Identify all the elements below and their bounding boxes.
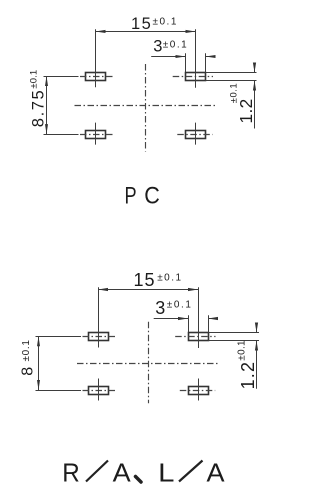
svg-text:1.2: 1.2 <box>238 361 258 390</box>
dimension text 15±0.1 (fig1) <box>131 15 178 33</box>
extension line top (left dim) <box>44 76 79 78</box>
extension line left (15 dim) <box>98 287 100 347</box>
svg-text:15: 15 <box>134 270 156 290</box>
pad BR <box>189 387 209 395</box>
pad BR <box>186 131 206 139</box>
centerline vertical (figure axis) <box>145 64 147 152</box>
pad centerline horizontal TR <box>175 336 215 338</box>
svg-text:±0.1: ±0.1 <box>157 272 182 283</box>
extension line bottom (1.2 dim) <box>206 80 257 82</box>
centerline horizontal (figure axis) <box>75 105 216 107</box>
pad BL <box>89 387 109 395</box>
left vertical dimension line with arrows <box>37 336 40 390</box>
dimension 3±0.1 leader and arrows <box>154 317 218 320</box>
pad TR <box>186 73 206 81</box>
pad centerline horizontal BR <box>180 390 215 392</box>
svg-text:3: 3 <box>153 38 162 56</box>
svg-text:3: 3 <box>155 298 165 318</box>
svg-text:R: R <box>62 459 79 488</box>
dimension 15±0.1 line with arrows <box>96 30 196 33</box>
extension line bottom (left dim) <box>36 390 82 392</box>
dimension 1.2±0.1 arrows <box>253 63 256 129</box>
pad BL <box>86 131 106 139</box>
svg-text:±0.1: ±0.1 <box>28 70 39 89</box>
label R/A, L/A <box>62 458 225 487</box>
dimension text 1.2±0.1 (fig2, rotated) <box>236 340 258 389</box>
extension line right (15 dim) <box>195 29 197 88</box>
pad centerline horizontal TL <box>80 76 114 78</box>
pad TL <box>86 73 106 81</box>
dimension text 8±0.1 (fig2, rotated) <box>20 339 37 375</box>
pad centerline horizontal BL <box>80 134 114 136</box>
extension line right (3 dim) <box>208 315 210 332</box>
extension line top (left dim) <box>36 336 82 338</box>
svg-text:P: P <box>124 181 136 209</box>
svg-text:±0.1: ±0.1 <box>163 40 188 51</box>
pad centerline horizontal TL <box>83 336 117 338</box>
svg-text:15: 15 <box>131 15 152 33</box>
svg-text:±0.1: ±0.1 <box>21 339 32 361</box>
svg-text:L: L <box>158 458 174 487</box>
dimension 3±0.1 leader and arrows <box>151 55 215 58</box>
left vertical dimension line with arrows <box>45 76 48 134</box>
extension line left (15 dim) <box>95 29 97 87</box>
dimension text 15±0.1 (fig2) <box>134 270 183 290</box>
pad centerline horizontal TR <box>173 76 213 78</box>
pad centerline vertical BL <box>98 379 100 401</box>
svg-text:±0.1: ±0.1 <box>228 83 239 103</box>
centerline vertical (figure axis) <box>148 322 150 404</box>
pad centerline horizontal BL <box>83 390 117 392</box>
pad centerline vertical BR <box>198 379 200 401</box>
pad TL <box>89 333 109 341</box>
svg-text:C: C <box>144 181 160 209</box>
extension line right (3 dim) <box>205 53 207 72</box>
extension line top (1.2 dim) <box>206 72 257 74</box>
extension line bottom (1.2 dim) <box>208 340 259 342</box>
extension line right (15 dim) <box>198 287 200 348</box>
pad centerline vertical BR <box>195 123 197 145</box>
dimension text 3±0.1 (fig2) <box>155 298 192 318</box>
extension line left (3 dim) <box>188 315 190 332</box>
dimension text 3±0.1 (fig1) <box>153 38 188 56</box>
extension line bottom (left dim) <box>44 134 79 136</box>
pad centerline horizontal BR <box>177 134 212 136</box>
svg-text:±0.1: ±0.1 <box>153 17 178 28</box>
dimension text 1.2±0.1 (fig1, rotated) <box>228 83 256 124</box>
svg-text:±0.1: ±0.1 <box>167 300 193 311</box>
extension line left (3 dim) <box>185 53 187 72</box>
pad centerline vertical BL <box>95 123 97 145</box>
label PC <box>124 181 159 209</box>
dimension 15±0.1 line with arrows <box>98 288 198 291</box>
svg-text:A: A <box>113 458 132 487</box>
centerline horizontal (figure axis) <box>77 363 218 365</box>
dimension 1.2±0.1 arrows <box>255 323 258 389</box>
svg-text:8: 8 <box>20 367 37 376</box>
extension line top (1.2 dim) <box>208 332 259 334</box>
dimension text 8.75±0.1 (fig1, rotated) <box>28 70 47 127</box>
svg-text:±0.1: ±0.1 <box>236 340 247 361</box>
svg-text:8.75: 8.75 <box>30 89 48 128</box>
pad TR <box>189 333 209 341</box>
svg-text:A: A <box>206 458 225 487</box>
